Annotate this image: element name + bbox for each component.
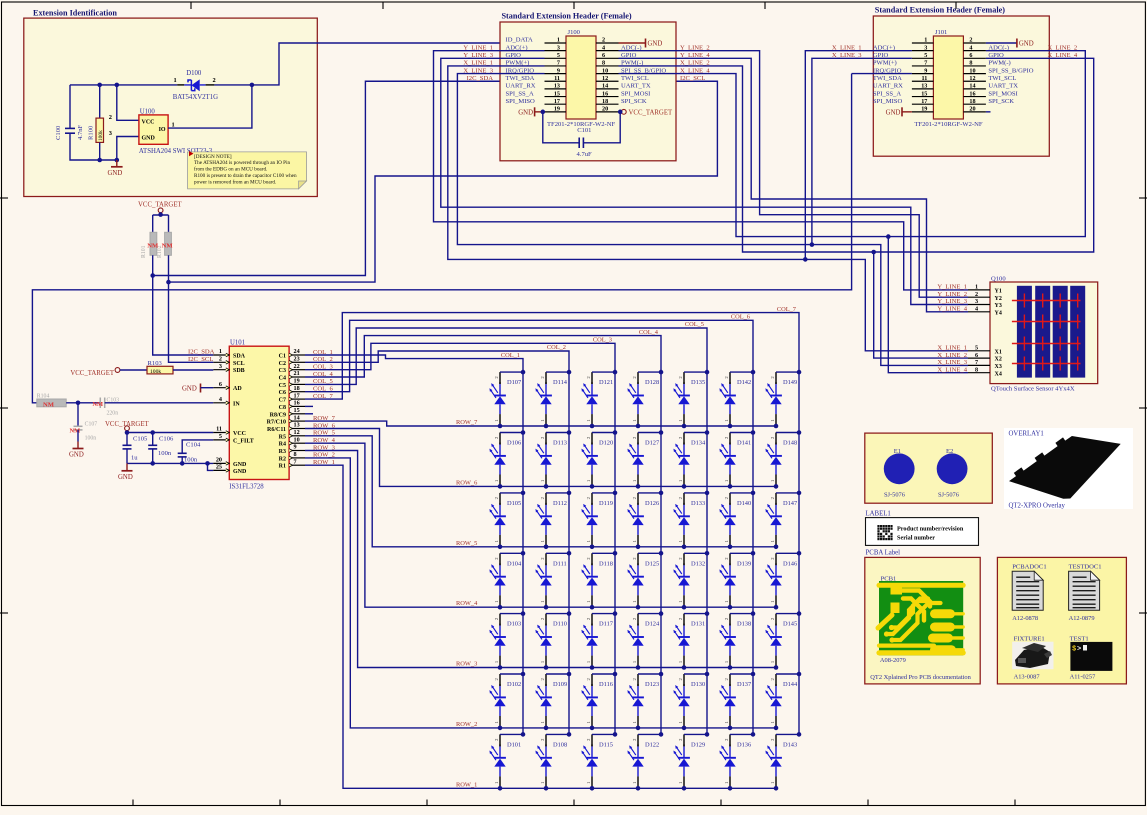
svg-text:LABEL1: LABEL1 [866,511,891,518]
pin U101.9 R3 [279,444,305,455]
LED D115 [581,732,617,791]
pin J100.12 [596,80,619,82]
LED D148 [765,430,801,489]
svg-text:Extension Identification: Extension Identification [33,9,117,18]
pin J101.19 [912,111,934,113]
svg-text:D127: D127 [645,440,660,447]
LED D117 [581,611,617,670]
svg-text:OVERLAY1: OVERLAY1 [1009,431,1044,438]
wire X_LINE_4 QTouch branch [888,237,968,373]
LED D118 [581,551,617,610]
pin U101.12 R5 [279,429,305,440]
svg-text:10: 10 [602,67,608,74]
LED D133 [673,491,709,549]
svg-text:22: 22 [294,363,300,370]
svg-text:D121: D121 [599,379,613,386]
svg-text:NM: NM [43,401,55,408]
svg-text:Standard Extension Header (Fem: Standard Extension Header (Female) [875,6,1005,15]
svg-text:The ATSHA204 is powered throug: The ATSHA204 is powered through an IO Pi… [194,160,291,166]
svg-text:D129: D129 [691,741,705,748]
LED D137 [719,672,755,731]
LED D141 [719,430,755,489]
resistor R104 NM [37,393,66,408]
svg-text:4: 4 [602,44,605,51]
svg-text:X_LINE_4: X_LINE_4 [937,366,967,373]
test TEST1 [1070,636,1113,681]
svg-text:UART_TX: UART_TX [621,83,651,90]
LED D111 [535,551,571,610]
wire IN net from J101 [32,74,851,403]
IC U100 ATSHA204 [109,109,213,155]
pin Q100.1 Y1 [968,284,1002,295]
LED D135 [673,370,709,429]
svg-text:D141: D141 [737,440,751,447]
pin J100.14 [596,88,619,90]
pin U101.5 C_FILT [213,433,253,444]
pin J101.17 [912,103,934,105]
svg-text:D125: D125 [645,560,659,567]
svg-text:6: 6 [219,381,222,388]
label LABEL1 [866,511,979,557]
svg-text:8: 8 [602,60,605,67]
svg-text:15: 15 [921,90,927,97]
svg-text:GND: GND [142,136,156,142]
svg-text:1: 1 [174,77,177,84]
svg-text:X2: X2 [995,357,1002,363]
svg-text:14: 14 [602,83,608,90]
svg-text:NM: NM [162,243,174,250]
wire R8/C9 stub [305,413,313,415]
capacitor C100 [55,124,84,140]
pin U101.19 C5 [279,378,305,389]
svg-text:18: 18 [602,98,608,105]
svg-text:C104: C104 [186,442,201,449]
svg-text:D146: D146 [783,560,797,567]
svg-text:13: 13 [554,83,560,90]
svg-text:SPI_MOSI: SPI_MOSI [621,90,650,97]
svg-text:17: 17 [294,392,300,399]
svg-text:ID_DATA: ID_DATA [506,37,534,44]
note DESIGN NOTE [188,151,307,189]
svg-text:NM: NM [147,243,159,250]
pin U101.13 R6/C11 [267,422,305,433]
svg-text:D108: D108 [553,741,567,748]
svg-text:D145: D145 [783,621,797,628]
node junction X_LINE_4 [886,234,891,239]
pin Q100.5 X1 [968,345,1002,356]
svg-text:UART_RX: UART_RX [506,83,536,90]
pin Q100.7 X3 [968,359,1002,370]
svg-text:23: 23 [294,356,300,363]
svg-text:C3: C3 [279,368,286,374]
svg-text:GND: GND [1019,41,1034,48]
svg-text:SDA: SDA [233,354,246,360]
pin J100.9 [545,73,567,75]
pin U101.4 IN [213,396,240,407]
svg-text:ROW_2: ROW_2 [456,721,477,728]
capacitor C105 1u [123,430,148,463]
LED D145 [765,611,801,670]
power port VCC_TARGET (J100 pin20) [619,111,622,113]
pin U101.20 GND [213,457,247,468]
svg-text:R100: R100 [88,125,95,140]
LED D124 [627,611,663,670]
pin J101.10 [963,73,986,75]
svg-text:4.7uF: 4.7uF [577,151,593,158]
svg-text:SPI_SS_B/GPIO: SPI_SS_B/GPIO [988,67,1033,74]
svg-text:D110: D110 [553,621,567,628]
LED D132 [673,551,709,610]
svg-text:J100: J100 [568,29,581,36]
LED D108 [535,732,571,791]
pin J101.2 [963,42,986,44]
svg-text:19: 19 [294,378,300,385]
svg-text:GND: GND [886,110,901,117]
svg-text:ROW_3: ROW_3 [456,661,477,668]
svg-text:D100: D100 [186,70,202,77]
pin J101.13 [912,88,934,90]
svg-text:A11-0257: A11-0257 [1070,673,1096,680]
svg-text:11: 11 [554,75,560,82]
pin J101.8 [963,65,986,67]
svg-text:A12-0879: A12-0879 [1069,615,1095,622]
wire X_LINE_3 J100 to QTouch [457,74,968,366]
wire X_LINE_1 J100 to QTouch [448,66,968,351]
wire X_LINE_2 QTouch branch [874,252,968,358]
svg-text:16: 16 [969,90,975,97]
svg-text:SPI_SCK: SPI_SCK [988,98,1014,105]
svg-text:C_FILT: C_FILT [233,438,254,444]
svg-text:SPI_MISO: SPI_MISO [506,98,536,105]
svg-text:C105: C105 [133,436,148,443]
svg-text:TWI_SCL: TWI_SCL [988,75,1016,82]
svg-text:D148: D148 [783,440,797,447]
pin J101.16 [963,96,986,98]
capacitor C106 100n [148,430,174,466]
svg-text:COL_7: COL_7 [777,306,797,313]
LED D119 [581,491,617,549]
svg-text:PWM(+): PWM(+) [873,60,897,67]
pin Q100.3 Y3 [968,298,1002,309]
svg-text:SDB: SDB [233,368,245,374]
LED D134 [673,430,709,489]
svg-text:X1: X1 [995,349,1002,355]
wire COL_6 net [305,320,753,734]
svg-text:D114: D114 [553,379,568,386]
LED D140 [719,491,755,549]
svg-text:VCC_TARGET: VCC_TARGET [105,421,149,428]
LED D142 [719,370,755,429]
pin U101.14 R7/C10 [267,414,305,425]
svg-text:D133: D133 [691,500,705,507]
svg-text:10: 10 [969,67,975,74]
svg-text:D105: D105 [507,500,521,507]
svg-text:2: 2 [602,37,605,44]
wire ROW_3 net [305,451,776,668]
pin J100.1 [545,42,567,44]
svg-text:I2C_SCL: I2C_SCL [680,75,705,82]
pin U101.22 C3 [279,363,305,374]
wire C8 stub [305,405,313,407]
pad E1 SJ-5076 [884,448,915,498]
block Standard Extension Header (J100) [500,22,676,161]
LED D120 [581,430,617,489]
svg-text:100k: 100k [150,369,161,375]
svg-text:5: 5 [557,52,560,59]
pin J101.14 [963,88,986,90]
svg-text:R5: R5 [279,434,286,440]
wire U100 GND pin3 [117,137,139,161]
svg-text:R6/C11: R6/C11 [267,427,286,433]
svg-text:D107: D107 [507,379,522,386]
svg-text:ROW_4: ROW_4 [456,600,478,607]
svg-text:from the EDBG on an MCU board.: from the EDBG on an MCU board. [194,166,267,173]
wire COL_2 net [305,351,569,734]
svg-text:2: 2 [219,356,222,363]
pin U101.1 SDA [213,348,245,359]
pin U101.23 C2 [279,356,305,367]
ground GND (C107) [69,442,84,459]
pin J100.10 [596,73,619,75]
svg-text:4: 4 [219,396,222,403]
svg-text:19: 19 [921,106,927,113]
svg-text:ROW_6: ROW_6 [456,479,477,486]
svg-text:VCC_TARGET: VCC_TARGET [629,110,673,117]
svg-text:14: 14 [294,414,300,421]
svg-text:20: 20 [969,106,975,113]
wire ROW_5 net [305,436,776,547]
svg-text:QT2 Xplained Pro PCB documenta: QT2 Xplained Pro PCB documentation [870,674,971,681]
svg-text:2: 2 [975,291,978,298]
LED D144 [765,672,801,731]
svg-text:D122: D122 [645,741,659,748]
svg-text:Serial number: Serial number [897,535,935,542]
svg-text:1u: 1u [131,455,138,462]
LED D138 [719,611,755,670]
LED D106 [489,430,525,489]
svg-text:220n: 220n [107,411,119,417]
pad E2 SJ-5076 [937,448,968,498]
svg-text:J101: J101 [935,29,947,36]
resistor R101 NM [141,232,157,258]
svg-text:R3: R3 [279,449,286,455]
wire VCC line [127,431,213,433]
svg-text:D138: D138 [737,621,751,628]
wire Y_LINE_2 J100 to QTouch [619,51,969,298]
svg-text:R2: R2 [279,456,286,462]
svg-text:SPI_SS_A: SPI_SS_A [873,90,901,97]
LED D131 [673,611,709,670]
sensor bar 4 [1070,286,1085,378]
wire X_LINE_4 J100 to J101 [619,51,1086,237]
pin U101.8 R2 [279,451,305,462]
ground GND (decoupling rail) [118,463,133,480]
svg-text:TESTDOC1: TESTDOC1 [1069,563,1102,570]
LED D136 [719,732,755,791]
svg-text:8: 8 [294,451,297,458]
svg-text:COL_1: COL_1 [501,352,520,359]
wire I2C_SCL pullup [169,255,214,362]
svg-text:C6: C6 [279,390,286,396]
sensor X row line 2 [1012,315,1081,329]
svg-text:COL_3: COL_3 [593,337,612,344]
svg-text:15: 15 [554,90,560,97]
LED D146 [765,551,801,610]
svg-text:BAT54XV2T1G: BAT54XV2T1G [173,94,218,101]
svg-text:VCC: VCC [233,431,246,437]
LED D109 [535,672,571,731]
svg-text:C107: C107 [85,422,98,428]
svg-text:D134: D134 [691,440,706,447]
svg-text:PCBADOC1: PCBADOC1 [1012,563,1046,570]
svg-text:D128: D128 [645,379,659,386]
LED D130 [673,672,709,731]
pin Q100.4 Y4 [968,306,1002,317]
svg-text:Y4: Y4 [995,310,1002,316]
svg-text:R101: R101 [141,245,147,258]
svg-text:Y_LINE_3: Y_LINE_3 [937,298,967,305]
svg-text:IN: IN [233,401,240,407]
wire R104 to C103 [66,402,100,404]
wire ROW_4 net [305,443,776,607]
svg-text:12: 12 [969,75,975,82]
svg-text:C2: C2 [279,361,286,367]
svg-text:UART_TX: UART_TX [988,83,1018,90]
svg-text:D113: D113 [553,440,567,447]
svg-text:100n: 100n [184,457,198,464]
wire I2C_SDA pullup [153,255,214,355]
pin U101.7 R1 [279,458,305,469]
svg-text:D137: D137 [737,681,752,688]
svg-text:9: 9 [294,444,297,451]
svg-text:Y_LINE_2: Y_LINE_2 [937,291,967,298]
svg-text:15: 15 [294,407,300,414]
LED D147 [765,491,801,549]
LED D127 [627,430,663,489]
svg-text:4: 4 [969,44,972,51]
LED D121 [581,370,617,429]
pin J100.11 [545,80,567,82]
pin J101.15 [912,96,934,98]
svg-text:2: 2 [213,77,216,84]
wire COL_7 net [305,313,799,735]
svg-text:COL_2: COL_2 [547,344,566,351]
svg-text:2: 2 [969,37,972,44]
pcb PCB1 [865,557,980,684]
svg-text:GND: GND [518,110,533,117]
svg-text:1: 1 [557,37,560,44]
svg-text:R4: R4 [279,442,286,448]
svg-text:6: 6 [969,52,972,59]
node junction X_LINE_3 [810,242,815,247]
svg-text:COL_4: COL_4 [639,329,659,336]
svg-text:R8/C9: R8/C9 [270,412,286,418]
wire ROW_7 net [305,421,776,426]
wire COL_4 net [305,336,661,735]
pin J101.9 [912,73,934,75]
svg-text:I2C_SDA: I2C_SDA [467,75,494,82]
svg-text:3: 3 [219,363,222,370]
document PCBADOC1 [1012,563,1046,622]
svg-text:D135: D135 [691,379,705,386]
svg-text:D104: D104 [507,560,522,567]
svg-text:A12-0878: A12-0878 [1012,615,1038,622]
pin J101.20 [963,111,986,113]
svg-text:13: 13 [294,422,300,429]
ground GND flag (J101 pin2) [986,42,1017,44]
pin J100.17 [545,103,567,105]
LED D125 [627,551,663,610]
svg-text:TF201-2*10RGF-W2-NF: TF201-2*10RGF-W2-NF [914,121,982,128]
svg-text:ROW_5: ROW_5 [456,540,477,547]
svg-text:SPI_MISO: SPI_MISO [873,98,903,105]
svg-text:21: 21 [294,370,300,377]
svg-text:100n: 100n [85,435,97,441]
svg-text:X3: X3 [995,364,1002,370]
svg-text:D106: D106 [507,440,521,447]
svg-text:C106: C106 [159,436,174,443]
pin Q100.6 X2 [968,352,1002,363]
svg-text:X_LINE_2: X_LINE_2 [937,352,967,359]
svg-text:D112: D112 [553,500,567,507]
LED D149 [765,370,801,429]
svg-text:IS31FL3728: IS31FL3728 [229,484,264,491]
wire ROW_1 net [305,465,776,788]
svg-text:Y_LINE_4: Y_LINE_4 [937,306,967,313]
svg-text:7: 7 [975,359,978,366]
svg-text:PCBA Label: PCBA Label [866,550,901,557]
wire C100 branch [69,85,71,128]
svg-text:COL_6: COL_6 [731,314,750,321]
svg-text:18: 18 [294,385,300,392]
pin U101.17 C7 [279,392,305,403]
pin U101.21 C4 [279,370,305,381]
svg-text:3: 3 [975,298,978,305]
svg-text:2: 2 [109,114,112,121]
sensor X row line 1 [1012,294,1081,308]
svg-text:D124: D124 [645,621,660,628]
pin J101.7 [912,65,934,67]
svg-text:TWI_SCL: TWI_SCL [621,75,649,82]
wire COL_1 net [305,355,523,734]
svg-text:AD: AD [233,386,242,392]
svg-text:D119: D119 [599,500,613,507]
pin U101.16 C8 [279,400,305,411]
svg-text:10: 10 [294,436,300,443]
svg-text:D123: D123 [645,681,659,688]
wire I2C_SCL to J100 [169,81,718,282]
LED D122 [627,732,663,791]
node junction X_LINE_1 [803,257,808,262]
svg-text:R104: R104 [37,393,50,399]
document TESTDOC1 [1069,563,1102,622]
block documentation [997,557,1126,684]
LED D143 [765,732,801,791]
svg-text:GND: GND [69,452,84,459]
LED D116 [581,672,617,731]
pin J100.5 [545,57,567,59]
svg-text:D144: D144 [783,681,798,688]
overlay OVERLAY1 [1004,428,1133,510]
pin U101.18 C6 [279,385,305,396]
pin U101.24 C1 [279,348,305,359]
pin J101.4 [963,50,986,52]
wire ROW_2 net [305,458,776,728]
wire U100 IO pin1 [168,85,252,128]
svg-text:D109: D109 [553,681,567,688]
wire pullup split [153,213,169,233]
svg-text:1: 1 [975,284,978,291]
